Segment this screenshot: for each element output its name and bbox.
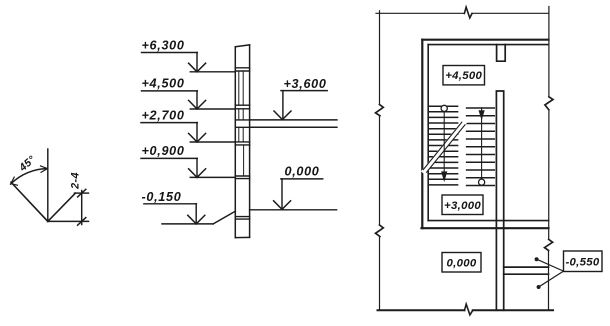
- right flight walking arrow: [479, 111, 484, 120]
- svg-text:-0,550: -0,550: [565, 257, 599, 269]
- left flight treads: [429, 106, 458, 185]
- elevation mark -0.150: shelf: [144, 203, 197, 205]
- elevation mark +6.300: shelf: [142, 52, 198, 54]
- +2.700 leader: [196, 123, 198, 142]
- level box +3,000: [442, 195, 483, 215]
- level box +4,500: [443, 66, 485, 85]
- right flight treads: [467, 108, 495, 186]
- left detail symbol: right 45deg arm: [48, 193, 76, 221]
- elevation mark +3.600: shelf: [281, 90, 327, 92]
- +4.500 level line: [190, 108, 235, 110]
- svg-text:+3,600: +3,600: [284, 77, 327, 91]
- -0.150 leader: [195, 204, 197, 224]
- +0.900 arrowhead: [189, 169, 206, 178]
- arc arrowhead right (at vertical line): [41, 166, 48, 172]
- extension line top (arm tip level): [75, 192, 89, 194]
- wall inner panel lines segment 2: [239, 109, 243, 120]
- svg-text:0,000: 0,000: [446, 257, 476, 269]
- 0.000 level line: [250, 209, 337, 211]
- plan: left break line: [379, 11, 381, 311]
- +3.600 arrowhead: [274, 111, 291, 120]
- wall inner panel lines segment 3: [239, 127, 243, 142]
- +0.900 level line: [190, 176, 235, 178]
- left detail symbol: vertical leader line: [47, 149, 49, 221]
- dimension tick bottom: [78, 218, 86, 226]
- leader dot upper: [535, 257, 539, 261]
- dimension tick top: [78, 189, 86, 197]
- wall joint pair at +3.600 slab level: [235, 120, 249, 127]
- stair flight cut: band edge lines: [423, 122, 465, 172]
- section wall: outer faces: [235, 45, 249, 238]
- 0.000 leader: [281, 179, 283, 210]
- left detail symbol: 45deg arc: [11, 169, 48, 185]
- door stub wall at top: [497, 45, 506, 62]
- svg-text:+4,500: +4,500: [445, 70, 482, 82]
- +6.300 level line: [190, 71, 235, 73]
- +2.700 level line: [190, 141, 235, 143]
- lower partition stub wall: [504, 267, 549, 274]
- elevation mark 0.000: shelf: [281, 178, 323, 180]
- stairwell top wall outer: [422, 39, 548, 41]
- 0.000 arrowhead: [274, 201, 291, 210]
- -0.150 slope line to wall: [213, 211, 235, 224]
- +0.900 leader: [196, 158, 198, 177]
- svg-text:0,000: 0,000: [285, 164, 320, 178]
- elevation mark +0.900: shelf: [141, 157, 197, 159]
- elevation mark +2.700: shelf: [141, 122, 197, 124]
- left flight walking line: [443, 112, 445, 173]
- extension line bottom (vertex level): [48, 220, 89, 222]
- level box 0,000: [442, 253, 481, 273]
- wall joint pair at 0.000: [235, 217, 249, 220]
- +6.300 leader: [196, 53, 198, 72]
- svg-text:45°: 45°: [16, 153, 38, 174]
- svg-text:+4,500: +4,500: [142, 77, 185, 91]
- -0.150 arrowhead: [188, 215, 205, 224]
- plan: top cut line: [376, 12, 549, 14]
- +4.500 leader: [196, 91, 198, 109]
- stairwell left wall outer: [421, 40, 423, 229]
- +3.600 leader: [282, 91, 284, 120]
- leader dot lower: [537, 285, 541, 289]
- +6.300 arrowhead: [189, 63, 206, 72]
- +4.500 arrowhead: [189, 100, 206, 109]
- -0.150 ground level line: [162, 223, 213, 225]
- plan: right break zigzag upper: [545, 97, 553, 110]
- plan: left break zigzag upper: [376, 105, 384, 116]
- stairwell left wall inner: [427, 45, 429, 221]
- svg-text:+6,300: +6,300: [142, 38, 185, 52]
- plan: right cut line: [548, 7, 550, 311]
- right flight walking line: [481, 108, 483, 179]
- leader lines to -0,550: [537, 259, 564, 287]
- section wall: top edge: [235, 45, 249, 47]
- svg-text:2-4: 2-4: [70, 172, 82, 190]
- label 2-4 rotated: [70, 172, 82, 190]
- plan: bottom ground line: [378, 309, 554, 311]
- stairwell bottom wall outer: [422, 227, 549, 229]
- stairwell bottom wall inner: [428, 220, 548, 222]
- wall joint pair at +4.500: [235, 105, 249, 109]
- wall joint pair at +0.900: [235, 176, 249, 179]
- svg-text:+2,700: +2,700: [142, 109, 185, 123]
- stairwell top wall inner: [428, 44, 548, 46]
- wall inner panel lines segment 1: [239, 71, 243, 105]
- dimension line 2-4: [81, 191, 83, 225]
- svg-text:+3,000: +3,000: [444, 200, 481, 212]
- svg-text:+0,900: +0,900: [142, 144, 185, 158]
- plan: bottom break zigzag: [465, 304, 473, 315]
- elevation mark +4.500: shelf: [142, 90, 198, 92]
- plan: top break zigzag: [464, 7, 472, 18]
- stair flight cut: white diagonal band: [425, 123, 464, 171]
- wall inner panel line segment 4: [243, 145, 245, 176]
- left flight walking arrow: [442, 172, 447, 181]
- wall joint pair at +6.300: [235, 68, 249, 71]
- section wall: bottom edge: [235, 236, 249, 238]
- left flight start circle: [441, 105, 447, 111]
- floor slab at +3.600: [250, 120, 337, 127]
- plan: right break zigzag lower: [545, 239, 553, 250]
- +2.700 arrowhead: [189, 133, 206, 142]
- wall joint pair at +2.700: [235, 142, 249, 145]
- arc arrowhead left (at arm tip): [11, 177, 18, 185]
- label 45 degrees: [16, 153, 38, 174]
- level box -0,550: [564, 251, 603, 272]
- stair right wall: [496, 91, 503, 310]
- right flight start circle: [479, 179, 485, 185]
- svg-text:-0,150: -0,150: [142, 190, 182, 204]
- left detail symbol: left 45deg arm: [11, 182, 48, 221]
- plan: left break zigzag lower: [376, 225, 384, 237]
